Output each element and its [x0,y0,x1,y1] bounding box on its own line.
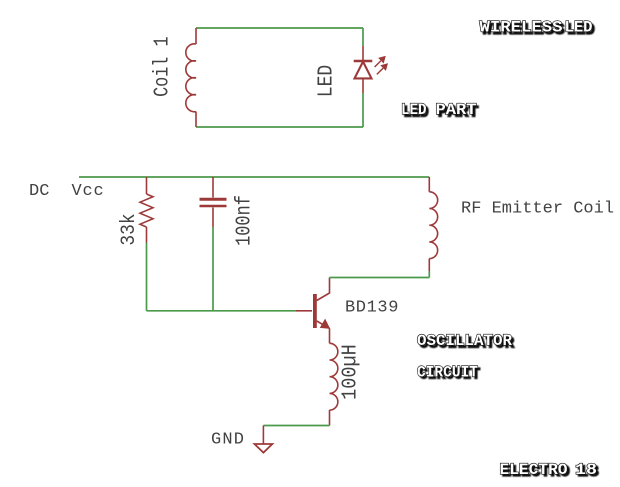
svg-text:Coil 1: Coil 1 [150,36,174,96]
svg-text:100µH: 100µH [339,344,362,400]
wire: right side of LED loop upper segment [362,28,364,46]
resistor R1 33k [140,177,153,243]
svg-text:33k: 33k [117,213,140,245]
svg-text:BD139: BD139 [345,299,399,318]
wire: capacitor bottom to rail [212,227,214,311]
svg-text:DC: DC [29,182,49,201]
wire: emitter to ground [263,425,329,427]
wire: bottom of LED loop [196,126,363,128]
wire: resistor bottom to rail [146,243,148,311]
title WIRELESS LED [480,19,595,39]
svg-text:GND: GND [211,431,245,450]
svg-text:LED: LED [401,101,427,119]
svg-text:LED: LED [314,65,338,98]
svg-text:Vcc: Vcc [72,182,105,201]
wire: bottom rail to transistor base [147,310,297,312]
svg-text:18: 18 [575,461,597,479]
wire: base lead [296,310,312,312]
wire: collector rail [330,277,430,279]
inductor Coil 1 [186,28,196,127]
svg-text:WIRELESS: WIRELESS [480,19,563,37]
wire: right side of LED loop lower segment [362,93,364,127]
svg-text:CIRCUIT: CIRCUIT [417,363,478,381]
title CIRCUIT [417,363,481,383]
svg-text:ELECTRO: ELECTRO [500,461,568,479]
svg-text:PART: PART [436,101,477,119]
LED light arrows [375,56,388,74]
wire: top of LED loop [196,27,363,29]
title OSCILLATOR [417,332,515,352]
node Vcc rail [79,176,429,178]
svg-text:100nf: 100nf [232,195,256,246]
LED D1 [354,46,373,93]
wire: ground stub [262,426,264,444]
capacitor C1 100nf [200,177,227,227]
ground symbol [255,444,273,453]
transistor Q1 BD139 [315,278,330,329]
wire: RF coil bottom [428,271,430,278]
svg-text:LED: LED [565,19,593,37]
title LED PART [401,101,479,121]
emitter arrowhead [321,320,330,329]
inductor L1 100uH [330,328,338,425]
inductor RF Emitter Coil [429,177,437,271]
svg-text:RF Emitter Coil: RF Emitter Coil [461,200,614,219]
svg-text:OSCILLATOR: OSCILLATOR [417,332,512,350]
title ELECTRO 18 [500,461,600,481]
